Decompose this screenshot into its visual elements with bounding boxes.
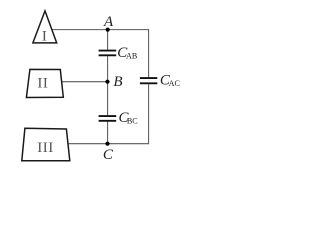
svg-text:II: II — [37, 76, 48, 92]
svg-text:B: B — [113, 74, 122, 90]
svg-text:A: A — [103, 14, 114, 30]
svg-text:III: III — [37, 140, 54, 156]
svg-text:I: I — [42, 28, 47, 44]
svg-text:CBC: CBC — [119, 110, 138, 126]
svg-text:C: C — [103, 147, 114, 163]
svg-text:CAB: CAB — [117, 45, 137, 61]
svg-text:CAC: CAC — [160, 72, 180, 88]
